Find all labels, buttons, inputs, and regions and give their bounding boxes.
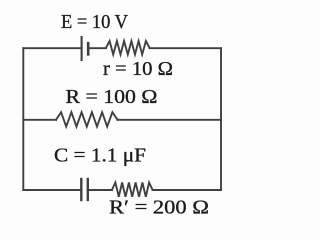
wire top-left to battery xyxy=(23,47,81,49)
wire capacitor to resistor R' xyxy=(88,189,112,191)
svg-text:r = 10 Ω: r = 10 Ω xyxy=(103,58,173,80)
wire left vertical xyxy=(22,48,24,190)
resistor r zigzag xyxy=(106,41,150,55)
battery E long plate xyxy=(81,37,83,60)
svg-text:R′ = 200 Ω: R′ = 200 Ω xyxy=(109,197,209,219)
resistor R zigzag xyxy=(56,112,118,126)
battery E short plate xyxy=(87,43,90,54)
svg-text:E = 10 V: E = 10 V xyxy=(61,11,129,33)
wire resistor r to top-right corner xyxy=(150,47,222,49)
wire resistor R' to bottom-right corner xyxy=(153,189,222,191)
wire bottom-left to capacitor xyxy=(23,189,81,191)
wire right vertical xyxy=(220,48,222,190)
wire battery to resistor r xyxy=(88,47,106,49)
svg-text:C = 1.1 μF: C = 1.1 μF xyxy=(54,145,146,167)
wire resistor R to right xyxy=(118,119,222,121)
capacitor C right plate xyxy=(87,179,89,200)
wire middle-left to resistor R xyxy=(23,119,56,121)
capacitor C left plate xyxy=(80,179,82,200)
resistor R' zigzag xyxy=(112,183,153,197)
svg-text:R = 100 Ω: R = 100 Ω xyxy=(66,86,158,108)
